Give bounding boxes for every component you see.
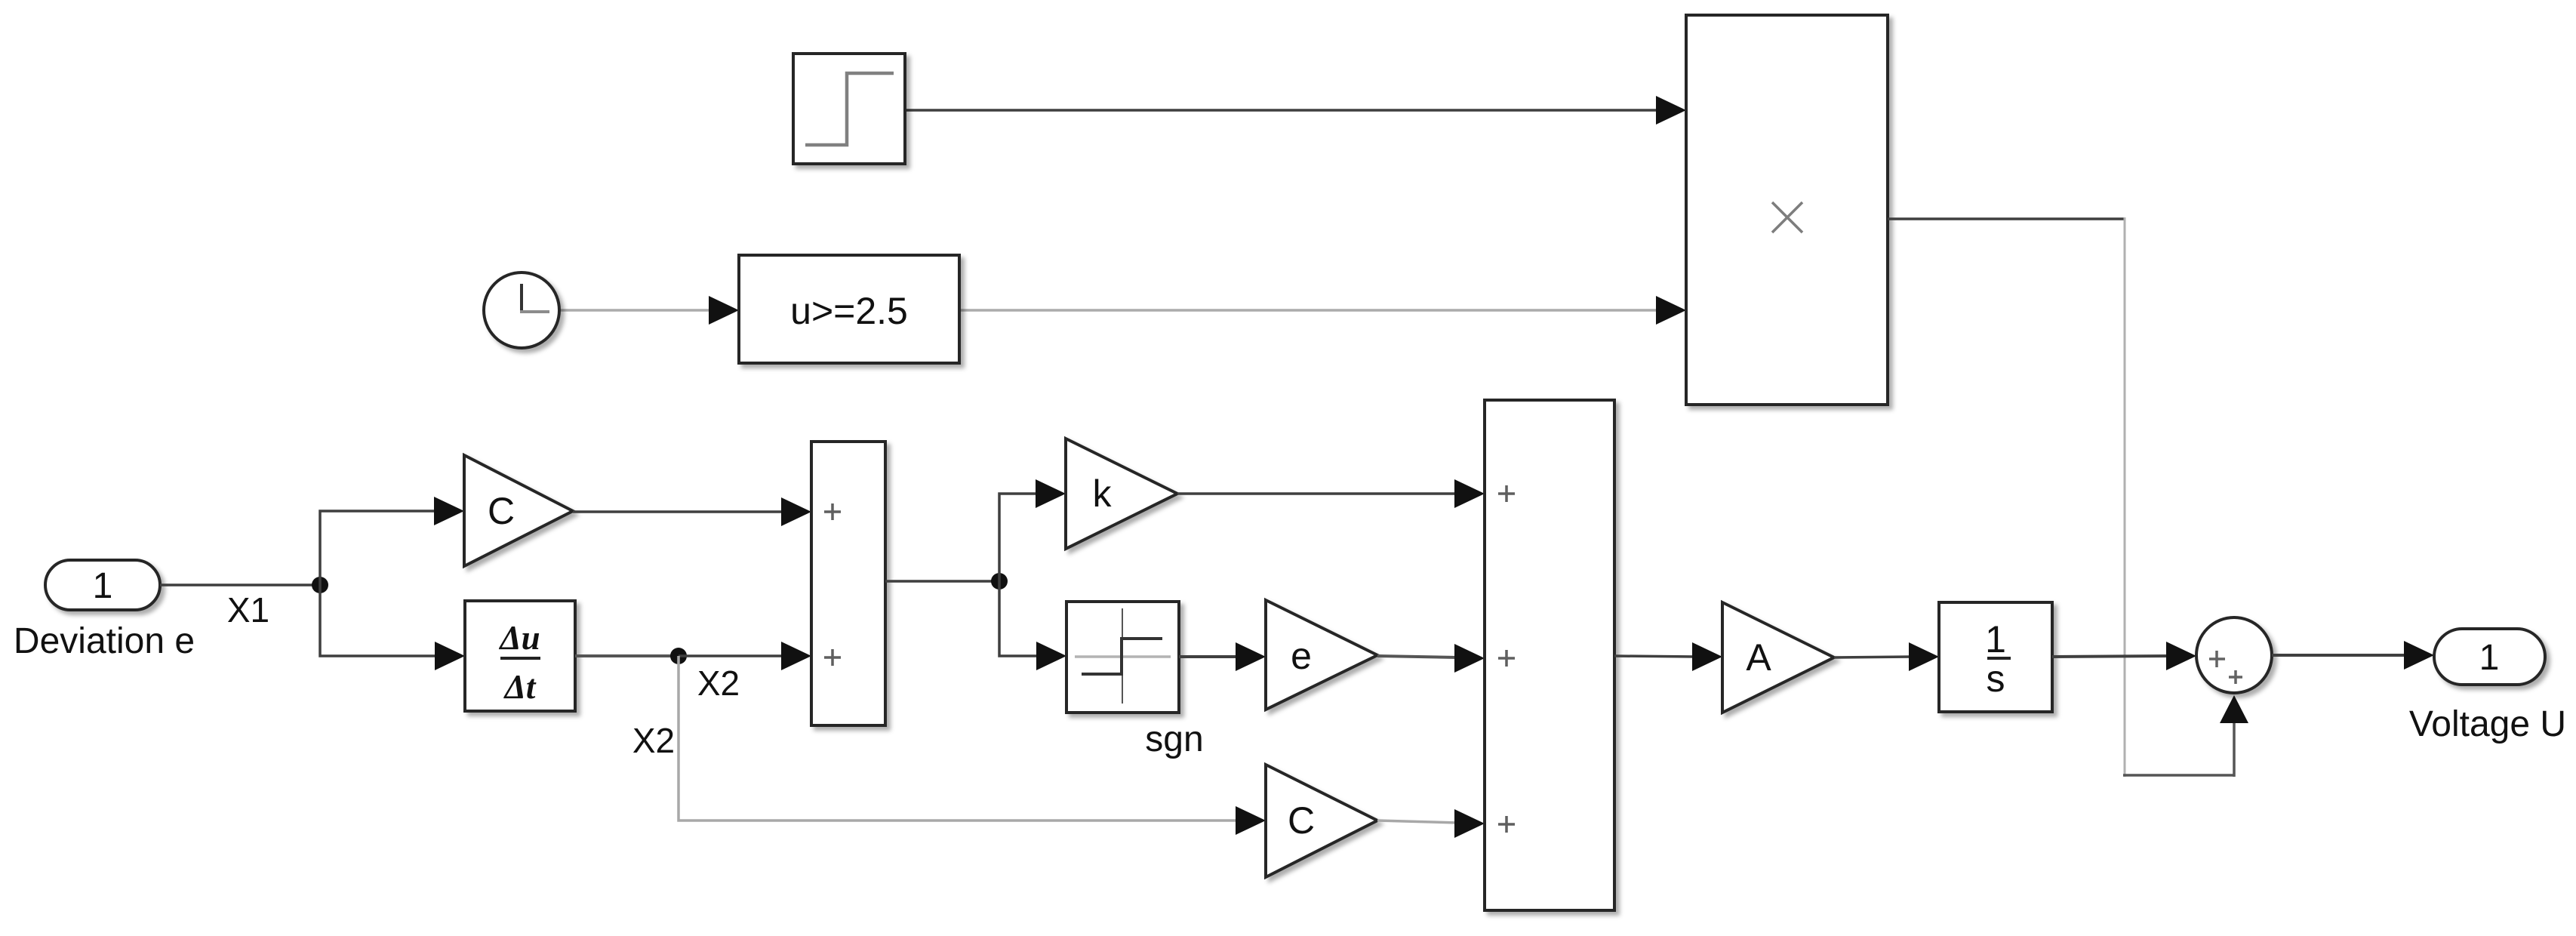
wire derivative to junction X2 (575, 654, 679, 657)
svg-text:X2: X2 (697, 664, 740, 703)
derivative block du/dt (465, 601, 575, 711)
gain k (1066, 439, 1177, 549)
node junction after sum1 (991, 573, 1008, 590)
wire X2 junction to sum1 lower input (679, 642, 811, 670)
wire step to product (905, 96, 1686, 125)
svg-text:Deviation e: Deviation e (14, 621, 195, 661)
svg-text:C: C (1288, 799, 1315, 842)
wire X2 junction down to gain C lower (679, 656, 1266, 835)
wire gain k to big sum (1177, 479, 1485, 508)
product block (1686, 15, 1888, 405)
wire gain C to sum1 (573, 497, 811, 526)
svg-text:sgn: sgn (1145, 719, 1203, 759)
svg-text:X1: X1 (227, 590, 269, 630)
gain C upper (464, 455, 573, 566)
wire inport to junction X1 (160, 583, 320, 587)
wire junction up to gain k (999, 479, 1066, 581)
svg-text:1: 1 (93, 566, 113, 606)
svg-text:1: 1 (1985, 618, 2006, 660)
wire integrator to sum circle (2052, 642, 2196, 670)
step source block Step (793, 54, 905, 164)
gain C lower (1266, 765, 1377, 877)
sum circle (2196, 617, 2272, 693)
svg-text:u>=2.5: u>=2.5 (790, 290, 908, 332)
svg-text:Δu: Δu (498, 619, 540, 657)
sum block 1 (811, 442, 885, 725)
wire product output down to sum circle (1888, 217, 2248, 777)
wire junction down to derivative (320, 585, 465, 670)
wire junction down to sgn (999, 581, 1066, 670)
wire gain e to big sum (1377, 644, 1485, 673)
node X2 junction (670, 648, 687, 664)
clock source (484, 272, 559, 348)
wire sum1 output to junction (885, 580, 999, 583)
wire junction up to gain C (320, 497, 464, 585)
wire clock to relational operator (559, 296, 739, 325)
relational operator block u>=2.5 (739, 255, 959, 363)
svg-text:Δt: Δt (503, 668, 537, 706)
wire relational to product (959, 296, 1686, 325)
svg-text:k: k (1093, 473, 1113, 515)
svg-text:Voltage U: Voltage U (2409, 704, 2566, 744)
svg-text:1: 1 (2479, 638, 2500, 678)
big sum block (1485, 400, 1614, 910)
output port 1 (2434, 629, 2545, 685)
wire sum circle to output port (2272, 641, 2434, 670)
svg-text:e: e (1291, 635, 1312, 677)
gain e (1266, 600, 1377, 710)
wire sgn to gain e (1179, 642, 1266, 671)
input port 1 (45, 560, 160, 610)
wire gain A to integrator (1834, 642, 1939, 671)
svg-text:A: A (1746, 636, 1771, 679)
gain A (1722, 602, 1834, 713)
svg-text:X2: X2 (632, 721, 675, 760)
node X1 junction (312, 577, 328, 593)
wire gain C lower to big sum (1377, 809, 1485, 838)
integrator block 1/s (1939, 602, 2052, 712)
sign block sgn (1066, 602, 1179, 713)
wire big sum to gain A (1614, 642, 1722, 671)
svg-text:C: C (488, 490, 515, 532)
svg-text:s: s (1987, 657, 2005, 700)
